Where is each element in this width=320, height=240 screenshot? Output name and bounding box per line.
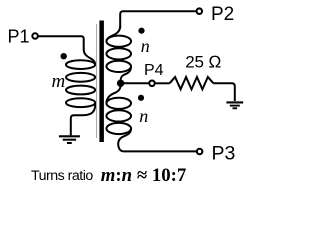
svg-text:P4: P4: [144, 62, 164, 79]
svg-text:Turns ratio: Turns ratio: [31, 168, 93, 184]
svg-text:P1: P1: [8, 26, 30, 46]
svg-text:m:n ≈ 10:7: m:n ≈ 10:7: [101, 165, 186, 186]
svg-text:25 Ω: 25 Ω: [185, 53, 221, 72]
svg-text:n: n: [139, 106, 148, 126]
svg-text:P3: P3: [212, 142, 236, 164]
svg-text:n: n: [141, 36, 150, 56]
svg-text:P2: P2: [211, 4, 234, 25]
svg-text:m: m: [52, 71, 66, 92]
